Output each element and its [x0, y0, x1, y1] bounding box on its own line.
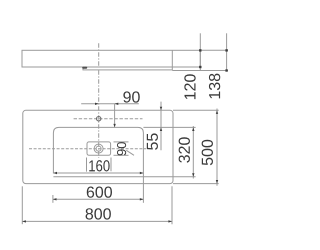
node arrow bowl left [53, 172, 57, 174]
component faucet hole [97, 117, 101, 121]
component drain rect [87, 142, 111, 155]
wire dim line 500 [216, 109, 218, 186]
node faucet dashes [74, 118, 143, 120]
node label 320 [179, 137, 190, 162]
wire 800 ext left [21, 186, 23, 224]
node centerline vertical [98, 43, 100, 158]
node label 90 drain [117, 142, 126, 155]
node label 600 [87, 186, 112, 197]
component ledge bar dark [83, 67, 172, 70]
node arrow 90 right [115, 103, 119, 105]
node label 138 [209, 74, 220, 99]
wire dim line 55 [160, 102, 162, 151]
wire drain dim ext top [114, 141, 129, 143]
wire 800 ext right [171, 186, 173, 224]
node arrow 320 bottom [192, 173, 194, 177]
wire dim line 320 [192, 126, 194, 179]
node arrow 600 right [140, 198, 144, 200]
wire drain dim diagonal [126, 150, 134, 155]
wire bowl top ext to 320 [143, 126, 195, 128]
node label 500 [202, 140, 213, 165]
node label 800 [86, 208, 111, 219]
node label 160 [89, 160, 109, 171]
node arrow 90 leader down [113, 124, 115, 128]
wire dim line 120 [199, 33, 201, 71]
node tick 120 top [199, 49, 201, 51]
wire dim line 600 [53, 198, 143, 200]
node arrow 600 left [53, 198, 57, 200]
component drain inner circle [96, 146, 101, 151]
wire side-view outline [22, 50, 200, 67]
wire leader 90 to bowl [114, 104, 116, 127]
component drain outer circle [94, 144, 103, 153]
wire inner front line [53, 176, 195, 178]
node tick 120 bottom [199, 66, 201, 68]
node label 55 [147, 133, 158, 149]
node arrow 55 upper [160, 107, 162, 111]
wire bowl outline [53, 127, 143, 173]
wire plan bottom ext to 500 [173, 183, 219, 185]
wire dim line 800 [22, 220, 172, 222]
node arrow 320 top [192, 127, 194, 131]
node arrow 800 right [168, 220, 172, 222]
node arrow 800 left [22, 220, 26, 222]
node bowl centerline dashes [29, 148, 146, 150]
wire drain dim ext bottom [114, 154, 129, 156]
wire 160 ext bar left [86, 158, 88, 172]
node arrow 55 lower [160, 127, 162, 131]
node label 120 [184, 74, 195, 99]
node tick 138 top [225, 49, 227, 51]
node arrow 500 bottom [216, 180, 218, 184]
wire 600 ext right [142, 173, 144, 203]
node label 90 top [123, 91, 139, 102]
wire 160 ext bar right [110, 158, 112, 172]
wire dim line 90 top [81, 103, 139, 105]
wire dim line 138 [226, 33, 228, 71]
wire bottom extension [172, 70, 228, 72]
node arrow 90 left [95, 103, 99, 105]
node arrow bowl right [140, 172, 144, 174]
wire top edge extension [200, 49, 228, 51]
node tick 138 bottom [225, 69, 227, 71]
wire side-view divider [171, 50, 173, 67]
wire plan top ext to 500 [173, 109, 219, 111]
wire 600 ext left [52, 195, 54, 203]
node arrow 500 top [216, 110, 218, 114]
wire plan outline [23, 110, 173, 183]
